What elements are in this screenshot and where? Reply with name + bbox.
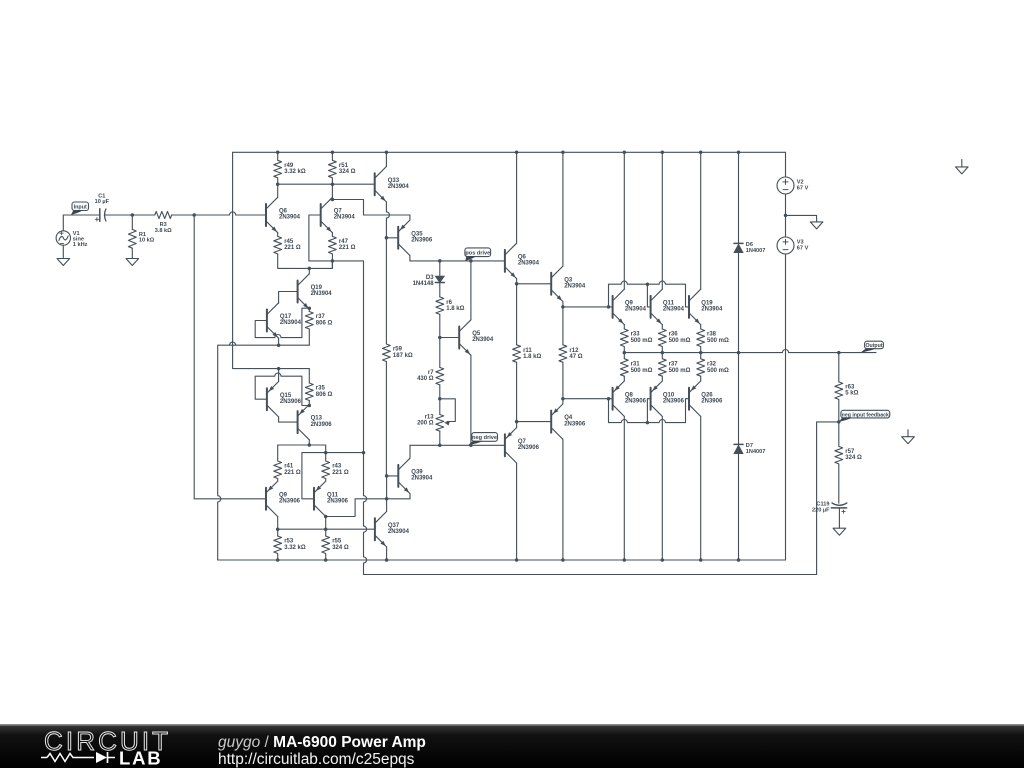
transistor Q26 2N3906 (output) <box>689 381 701 416</box>
svg-text:r13: r13 <box>425 414 435 420</box>
label C1 <box>95 193 110 205</box>
wire r41 r43 top line <box>278 445 326 453</box>
resistor r57 324 <box>835 422 843 503</box>
resistor r43 221 <box>322 453 330 482</box>
voltage source V2 67V <box>777 177 794 194</box>
node Q6 driver emitter junction <box>515 282 519 286</box>
node R1 tap <box>131 213 135 217</box>
svg-text:Q39: Q39 <box>411 470 423 476</box>
node output base tap bottom <box>607 397 611 401</box>
svg-text:221 Ω: 221 Ω <box>284 245 301 251</box>
svg-text:1.8 kΩ: 1.8 kΩ <box>446 306 464 312</box>
wire Q5 base stub <box>440 337 459 339</box>
svg-text:Q17: Q17 <box>280 314 292 320</box>
node Q7 collector junction <box>331 198 335 202</box>
wire left rail branch to mirror bias <box>233 152 310 368</box>
svg-text:806 Ω: 806 Ω <box>316 320 333 326</box>
label Q10 output <box>663 392 685 404</box>
label Q9 output <box>625 301 647 313</box>
svg-text:neg input feedback: neg input feedback <box>842 412 889 418</box>
transistor Q7 2N3904 <box>321 197 333 232</box>
ground below C119 <box>833 528 846 535</box>
node r13 top node <box>438 397 442 401</box>
node Q37 collector junction <box>385 497 389 501</box>
svg-text:r31: r31 <box>631 362 641 368</box>
label r57 <box>845 449 862 461</box>
resistor r55 324 <box>322 536 330 560</box>
node Q5 emitter junction <box>469 444 473 448</box>
svg-text:500 mΩ: 500 mΩ <box>631 368 653 374</box>
wire Q26 emitter <box>700 376 702 381</box>
svg-text:Output: Output <box>866 343 883 349</box>
wire upper mirror bias line <box>218 342 310 560</box>
svg-text:Q6: Q6 <box>518 255 527 261</box>
wire r35 stub <box>308 369 310 383</box>
svg-text:Q37: Q37 <box>388 523 400 529</box>
wire Q10 base stub <box>647 399 650 423</box>
svg-text:Q26: Q26 <box>701 392 713 398</box>
node junction on bottom rail <box>737 558 741 562</box>
node Q9 collector junction <box>276 527 280 531</box>
svg-text:Q3: Q3 <box>564 277 573 283</box>
svg-text:3.32 kΩ: 3.32 kΩ <box>284 545 306 551</box>
svg-text:Q33: Q33 <box>388 178 400 184</box>
svg-text:1N4148: 1N4148 <box>413 281 435 287</box>
svg-text:Q7: Q7 <box>518 439 527 445</box>
label D3 <box>413 275 435 287</box>
node Q35 base node <box>385 236 389 240</box>
wire Q7 collector to r51 node <box>331 184 333 197</box>
svg-text:500 mΩ: 500 mΩ <box>631 338 653 344</box>
svg-text:2N3904: 2N3904 <box>472 337 494 343</box>
wire Q15 emitter <box>278 369 280 382</box>
wire Q10 emitter <box>661 376 663 381</box>
node Q3 emitter junction <box>561 305 565 309</box>
transistor Q11 2N3904 (output) <box>651 289 663 324</box>
svg-text:r49: r49 <box>284 163 294 169</box>
svg-text:1N4007: 1N4007 <box>746 248 766 254</box>
wire Q17 emitter <box>278 338 280 345</box>
svg-text:5 kΩ: 5 kΩ <box>845 391 858 397</box>
svg-text:Q15: Q15 <box>280 393 292 399</box>
node tail junction <box>308 267 312 271</box>
wire collector load line y=184 <box>278 183 375 185</box>
svg-text:2N3906: 2N3906 <box>564 421 586 427</box>
capacitor C119 220uF <box>831 503 847 528</box>
label r37 <box>316 314 333 326</box>
svg-text:Q10: Q10 <box>663 392 675 398</box>
wire Q10 collector <box>661 416 663 560</box>
svg-text:Q11: Q11 <box>663 301 675 307</box>
ground below R1 <box>126 259 139 266</box>
svg-text:Q13: Q13 <box>311 416 323 422</box>
svg-text:1.8 kΩ: 1.8 kΩ <box>523 354 541 360</box>
wire top positive rail <box>233 151 786 153</box>
node output tap <box>837 351 841 355</box>
wire Q17 base loop <box>255 308 309 337</box>
svg-text:324 Ω: 324 Ω <box>332 545 349 551</box>
voltage source V1 sine <box>56 215 70 259</box>
wire Q19 emitter <box>700 325 702 329</box>
transistor Q9 2N3906 <box>266 481 278 516</box>
svg-text:430 Ω: 430 Ω <box>417 376 434 382</box>
label Q19 <box>311 285 333 297</box>
svg-text:2N3904: 2N3904 <box>280 320 302 326</box>
transistor Q37 2N3904 <box>375 512 387 547</box>
node input junction <box>192 213 196 217</box>
wire Q39 base stub <box>387 475 399 477</box>
label r53 <box>284 539 306 551</box>
label r32 <box>707 362 729 374</box>
label r47 <box>339 239 356 251</box>
wire Q8 emitter <box>623 376 625 381</box>
svg-text:LAB: LAB <box>119 748 162 768</box>
wire Z link to Q37/Q39 <box>326 499 410 517</box>
wire Q7 collector cross link <box>332 200 410 216</box>
node Q4 emitter junction <box>561 397 565 401</box>
node junction on bottom rail <box>276 558 280 562</box>
transistor Q11 2N3906 <box>314 481 326 516</box>
wire Q33 emitter to Q35 base <box>386 202 389 238</box>
node Q13 collector junction <box>308 443 312 447</box>
node junction on bottom rail <box>385 558 389 562</box>
resistor r35 806 <box>305 383 313 401</box>
node Q4 base node <box>515 420 519 424</box>
node junction on bottom rail <box>699 558 703 562</box>
svg-text:http://circuitlab.com/c25epqs: http://circuitlab.com/c25epqs <box>218 751 415 768</box>
wire midpoint to ground <box>786 215 817 222</box>
svg-text:r63: r63 <box>845 385 855 391</box>
wire Q7 base loop <box>309 215 321 261</box>
transistor Q7 2N3906 (driver) <box>505 428 517 463</box>
svg-text:10 µF: 10 µF <box>95 199 110 205</box>
wire r11 bottom <box>516 362 518 421</box>
wire Q11 emitter <box>661 325 663 329</box>
resistor r37 806 <box>305 312 313 330</box>
resistor r51 324 <box>329 152 337 184</box>
transistor Q4 2N3906 <box>551 404 563 439</box>
resistor r32 500m <box>697 353 705 377</box>
svg-text:221 Ω: 221 Ω <box>332 470 349 476</box>
label r51 <box>339 163 356 175</box>
label r43 <box>332 464 349 476</box>
resistor r47 221 <box>329 236 337 254</box>
label V2 <box>797 179 809 191</box>
svg-text:2N3906: 2N3906 <box>518 445 540 451</box>
wire Q7 driver emitter <box>516 422 518 428</box>
svg-text:324 Ω: 324 Ω <box>339 169 356 175</box>
wire output base rail top <box>609 281 690 307</box>
svg-text:2N3906: 2N3906 <box>311 422 333 428</box>
transistor Q19 2N3904 (output) <box>689 289 701 324</box>
wire r35 bottom <box>308 401 310 406</box>
wire Q4 collector <box>562 439 564 560</box>
diode D7 1N4007 <box>734 444 743 453</box>
resistor r11 1.8k <box>513 345 521 363</box>
label r63 <box>845 385 858 397</box>
svg-text:r57: r57 <box>845 449 855 455</box>
transistor Q13 2N3906 <box>298 404 310 439</box>
label r12 <box>569 348 582 360</box>
wire Q13 collector <box>308 440 310 445</box>
svg-text:3.32 kΩ: 3.32 kΩ <box>284 169 306 175</box>
resistor r37 500m <box>658 353 666 377</box>
node junction on top rail <box>515 151 519 155</box>
label r41 <box>284 464 301 476</box>
transistor Q9 2N3904 (output) <box>613 289 625 324</box>
svg-text:Q19: Q19 <box>311 285 323 291</box>
svg-text:3.8 kΩ: 3.8 kΩ <box>155 228 172 234</box>
capacitor C1 10uF <box>95 209 106 222</box>
resistor r13 200 <box>436 415 444 432</box>
svg-text:Q9: Q9 <box>625 301 634 307</box>
label r31 <box>631 362 653 374</box>
wire input line <box>63 214 100 216</box>
label r13 <box>417 414 434 426</box>
node r51 collector node <box>331 182 335 186</box>
label r11 <box>523 348 541 360</box>
wire Q39 collector <box>409 445 411 458</box>
svg-text:r6: r6 <box>446 300 452 306</box>
ground floating top right <box>956 160 969 174</box>
svg-text:r11: r11 <box>523 348 532 354</box>
label C119 <box>812 501 830 513</box>
svg-text:2N3904: 2N3904 <box>334 215 356 221</box>
transistor Q35 2N3906 <box>398 220 410 255</box>
node junction on top rail <box>276 151 280 155</box>
footer url text <box>218 751 415 768</box>
svg-text:neg drive: neg drive <box>472 435 497 441</box>
svg-text:r36: r36 <box>669 332 679 338</box>
svg-text:Q11: Q11 <box>327 492 339 498</box>
resistor r59 187k <box>383 344 391 362</box>
wire Q15 collector to Q13 base <box>279 417 298 422</box>
wire Q19 base from Q17 collector <box>279 292 298 304</box>
label Q33 <box>388 178 410 190</box>
svg-text:2N3906: 2N3906 <box>280 399 302 405</box>
wire r13 wiper loop <box>440 399 456 422</box>
wire r13 bottom <box>439 431 441 445</box>
ground floating mid right <box>902 430 915 444</box>
label r55 <box>332 539 349 551</box>
svg-text:r55: r55 <box>332 539 342 545</box>
node Q5 base node <box>438 336 442 340</box>
wire base drive line y529 <box>278 528 375 530</box>
label Q26 output <box>701 392 723 404</box>
label r36 <box>669 332 691 344</box>
wire Q6 emitter to r45 <box>277 233 279 237</box>
node output rail junction <box>623 351 627 355</box>
diode D3 1N4148 <box>435 261 444 297</box>
svg-text:2N3904: 2N3904 <box>663 307 685 313</box>
wire R3 to Q6 base <box>172 212 266 215</box>
svg-text:r59: r59 <box>393 347 403 353</box>
node Q17 emitter junction <box>277 343 281 347</box>
wire r12 top <box>562 307 564 345</box>
wire Q35 collector to drive line <box>409 256 411 261</box>
label D7 <box>746 443 766 455</box>
svg-text:2N3904: 2N3904 <box>279 215 301 221</box>
svg-text:Q35: Q35 <box>411 231 423 237</box>
svg-text:r53: r53 <box>284 539 294 545</box>
wire Q7 base feedback node line <box>309 260 364 262</box>
node output rail junction <box>699 351 703 355</box>
transistor Q17 2N3904 <box>267 303 279 338</box>
svg-text:221 Ω: 221 Ω <box>339 245 356 251</box>
diode D6 1N4007 <box>734 243 743 252</box>
transistor Q8 2N3906 (output) <box>613 381 625 416</box>
wire D7 top <box>738 353 740 445</box>
label r37 <box>669 362 691 374</box>
node D3 anode <box>438 259 442 263</box>
label Q13 <box>311 416 333 428</box>
wire D7 bottom <box>738 454 740 560</box>
label r59 <box>393 347 413 359</box>
svg-text:Input: Input <box>74 204 87 210</box>
svg-text:2N3904: 2N3904 <box>564 284 586 290</box>
svg-text:2N3906: 2N3906 <box>279 499 301 505</box>
potentiometer r13 200 wiper arrow <box>444 422 450 426</box>
node output rail junction <box>737 351 741 355</box>
svg-text:221 Ω: 221 Ω <box>284 470 301 476</box>
node mirror bias junction <box>277 367 281 371</box>
node r47 bottom junction <box>331 259 335 263</box>
wire Q9 emitter <box>623 325 625 329</box>
node junction on top rail <box>385 151 389 155</box>
node feedback tap <box>362 451 366 455</box>
svg-text:2N3906: 2N3906 <box>411 238 433 244</box>
svg-text:r12: r12 <box>569 348 579 354</box>
wire Q3 base line <box>517 283 552 285</box>
svg-text:806 Ω: 806 Ω <box>316 392 333 398</box>
svg-text:guygo / MA-6900 Power Amp: guygo / MA-6900 Power Amp <box>218 734 426 751</box>
node junction on bottom rail <box>515 558 519 562</box>
wire V3 bottom <box>785 254 787 560</box>
svg-text:200 Ω: 200 Ω <box>417 420 434 426</box>
label r6 <box>446 300 464 312</box>
node feedback node <box>837 420 841 424</box>
svg-text:2N3906: 2N3906 <box>625 398 647 404</box>
svg-text:220 µF: 220 µF <box>812 507 830 513</box>
wire Q39 emitter <box>409 494 411 499</box>
wire Q35 base stub <box>386 237 398 239</box>
label Q11 <box>327 492 349 504</box>
wire Q39 base to collector node <box>386 476 388 499</box>
wire Q4 base stub <box>517 421 552 423</box>
footer title text <box>218 734 426 751</box>
svg-text:r38: r38 <box>707 332 717 338</box>
footer bar <box>0 724 1024 768</box>
transistor Q39 2N3904 <box>398 458 410 493</box>
svg-text:324 Ω: 324 Ω <box>845 455 862 461</box>
label r45 <box>284 239 301 251</box>
flag neg input feedback <box>839 410 890 422</box>
label Q37 <box>388 523 410 535</box>
node junction on top rail <box>661 151 665 155</box>
resistor r12 47 <box>559 345 567 363</box>
svg-text:r51: r51 <box>339 163 349 169</box>
node r49 collector node <box>276 182 280 186</box>
svg-text:r47: r47 <box>339 239 349 245</box>
wire D6 bottom <box>738 253 740 353</box>
node Q39 base junction <box>385 474 389 478</box>
node junction on top rail <box>699 151 703 155</box>
wire Q8 collector <box>623 416 625 560</box>
transistor Q6 2N3904 <box>266 197 278 232</box>
voltage source V3 67V <box>777 237 794 254</box>
svg-text:Q19: Q19 <box>701 301 713 307</box>
svg-text:1 kHz: 1 kHz <box>73 242 88 248</box>
resistor R1 10k <box>128 215 136 259</box>
svg-text:r43: r43 <box>332 464 342 470</box>
svg-text:2N3904: 2N3904 <box>388 529 410 535</box>
wire Q35 base to r59 <box>385 238 387 344</box>
svg-text:r37: r37 <box>316 314 326 320</box>
wire output rail <box>624 350 876 353</box>
svg-text:r35: r35 <box>316 386 326 392</box>
wire Q15 base loop <box>255 373 309 405</box>
node junction on bottom rail <box>561 558 565 562</box>
label Q35 <box>411 231 433 243</box>
flag Input <box>71 202 89 215</box>
svg-text:500 mΩ: 500 mΩ <box>707 338 729 344</box>
svg-text:Q7: Q7 <box>334 209 343 215</box>
transistor Q5 2N3904 <box>459 320 471 355</box>
wire Q19 collector <box>700 152 702 289</box>
resistor r45 221 <box>274 236 282 254</box>
svg-text:Q5: Q5 <box>472 331 481 337</box>
flag Output <box>861 341 884 352</box>
label Q39 <box>411 470 433 482</box>
wire bottom negative rail <box>218 559 786 561</box>
node junction on top rail <box>737 151 741 155</box>
svg-text:pos drive: pos drive <box>465 250 490 256</box>
wire r6 to Q5 base node <box>439 314 441 337</box>
svg-text:r32: r32 <box>707 362 717 368</box>
node r43 top junction <box>324 451 328 455</box>
svg-text:r33: r33 <box>631 332 641 338</box>
node Q13 emitter junction <box>308 404 312 408</box>
label r38 <box>707 332 729 344</box>
svg-text:1N4007: 1N4007 <box>746 449 766 455</box>
wire input line after C1 <box>105 214 155 216</box>
label Q17 <box>280 314 302 326</box>
transistor Q19 2N3904 <box>298 274 310 309</box>
wire output base line top <box>563 306 613 308</box>
wire Q6 driver emitter <box>516 279 518 284</box>
svg-text:500 mΩ: 500 mΩ <box>669 368 691 374</box>
svg-text:2N3904: 2N3904 <box>411 476 433 482</box>
wire Q7 driver collector <box>516 463 518 560</box>
svg-text:47 Ω: 47 Ω <box>569 354 582 360</box>
wire output base rail bottom <box>609 399 690 423</box>
node Q19 emitter junction <box>308 306 312 310</box>
svg-text:Q9: Q9 <box>279 492 288 498</box>
svg-text:2N3904: 2N3904 <box>311 291 333 297</box>
resistor r36 500m <box>658 329 666 353</box>
node junction on bottom rail <box>324 558 328 562</box>
svg-text:Q6: Q6 <box>279 209 288 215</box>
wire output base line bottom <box>563 398 613 400</box>
wire Q5 emitter <box>470 355 472 445</box>
label Q9 <box>279 492 301 504</box>
label Q7 driver <box>518 439 540 451</box>
wire Q11 base stub <box>302 498 314 500</box>
node r13 bottom junction <box>438 444 442 448</box>
wire base line y452 <box>302 453 364 499</box>
resistor R3 3.8k <box>155 211 172 218</box>
wire Q6 collector <box>277 184 279 197</box>
